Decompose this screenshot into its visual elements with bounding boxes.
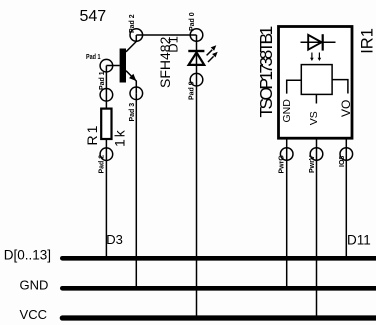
resistor R1 body [101, 109, 111, 139]
svg-text:GND: GND [281, 99, 293, 123]
wire GND pin to GND bus [286, 140, 288, 289]
svg-text:Pad 9: Pad 9 [189, 81, 196, 100]
svg-text:Pad 1: Pad 1 [99, 71, 106, 90]
light-in arrow 2 [318, 53, 320, 59]
wire base [106, 65, 119, 67]
pad GND PwrG [280, 148, 293, 161]
transistor Q1 emitter arrowhead [129, 74, 136, 81]
wire R1 bottom to bus D3 [105, 139, 107, 256]
LED D1 light arrow 1 [207, 50, 213, 56]
photodiode cathode bar [322, 34, 324, 50]
LED D1 light arrow 2 [208, 56, 214, 62]
svg-text:IR1: IR1 [359, 28, 376, 54]
wire VO pin to D bus [345, 140, 347, 257]
pad LED bottom Pad 9 [190, 73, 203, 86]
photodiode triangle [308, 35, 321, 50]
svg-text:Pad 3: Pad 3 [129, 103, 136, 122]
wire base pad down to R1 [105, 66, 107, 109]
pad LED top Pad 0 [190, 29, 203, 42]
bus GND [62, 286, 376, 291]
wire emitter to GND bus [135, 93, 137, 288]
svg-text:VS: VS [308, 111, 320, 125]
svg-text:Pad 2: Pad 2 [99, 155, 106, 174]
pad VO IO8 [340, 148, 353, 161]
transistor Q1 base bar [120, 49, 126, 83]
detector square [301, 65, 332, 95]
pad VS PwrV [310, 148, 323, 161]
pad collector Pad 2 [130, 29, 143, 42]
svg-text:D11: D11 [347, 232, 371, 247]
bus D[0..13] [62, 256, 376, 261]
wire VS pin to VCC bus [316, 140, 318, 318]
svg-text:IO8: IO8 [339, 156, 346, 167]
wire collector stub [126, 35, 136, 52]
pad base Pad 1 [100, 59, 113, 72]
svg-text:Pad 1: Pad 1 [86, 54, 101, 61]
svg-text:Pad 0: Pad 0 [189, 12, 196, 31]
LED D1 cathode bar [188, 50, 204, 52]
LED D1 triangle [189, 53, 205, 65]
svg-text:VCC: VCC [20, 307, 47, 322]
svg-text:D3: D3 [106, 232, 123, 247]
svg-text:TSOP1738TB1: TSOP1738TB1 [256, 27, 276, 118]
svg-text:547: 547 [80, 8, 107, 25]
svg-text:D[0..13]: D[0..13] [4, 248, 51, 263]
GND pin lead [287, 80, 302, 93]
pad emitter Pad 3 [130, 87, 143, 100]
svg-text:1k: 1k [112, 128, 128, 147]
photodiode lead [301, 41, 336, 43]
wire collector to LED [136, 34, 196, 36]
VS pin lead [315, 94, 317, 103]
svg-text:PwrG: PwrG [279, 155, 286, 174]
svg-text:Pad 2: Pad 2 [129, 14, 136, 33]
svg-text:PwrV: PwrV [309, 155, 316, 173]
svg-text:D1: D1 [166, 36, 181, 53]
svg-text:R1: R1 [84, 124, 100, 146]
svg-text:VO: VO [339, 100, 353, 117]
IC IR1 box [279, 27, 353, 139]
pad R1 bottom Pad 2 [100, 148, 113, 161]
pad R1 top Pad 1 [100, 89, 113, 102]
bus VCC [62, 315, 376, 320]
svg-text:GND: GND [20, 278, 49, 293]
VO pin lead [332, 80, 348, 94]
transistor Q1 emitter [126, 71, 136, 94]
light-in arrow 1 [311, 53, 313, 59]
wire LED column to VCC bus [196, 35, 198, 318]
